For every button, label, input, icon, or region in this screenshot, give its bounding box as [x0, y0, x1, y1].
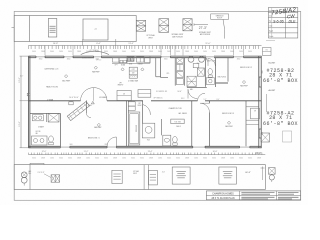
wardrobe — [128, 112, 140, 145]
svg-text:3050: 3050 — [104, 51, 108, 53]
mbath shower — [48, 113, 59, 122]
svg-text:BEDROOM #2: BEDROOM #2 — [240, 67, 252, 69]
svg-text:OPT: OPT — [138, 103, 141, 105]
wd cluster — [187, 76, 196, 86]
svg-text:14'-0": 14'-0" — [178, 91, 182, 93]
svg-text:3040: 3040 — [59, 158, 63, 160]
note box 3 — [149, 170, 158, 185]
svg-text:SH: SH — [254, 110, 256, 112]
svg-text:13'-6": 13'-6" — [19, 121, 21, 126]
svg-text:3050: 3050 — [140, 51, 144, 53]
svg-text:3050: 3050 — [140, 158, 144, 160]
svg-text:OPT: OPT — [119, 83, 122, 85]
svg-text:3040: 3040 — [167, 158, 171, 160]
cbath toilet — [173, 137, 178, 143]
divider lines — [143, 165, 145, 190]
svg-text:3050: 3050 — [262, 70, 264, 73]
broom closet — [155, 58, 157, 77]
ac pad — [261, 133, 270, 142]
chassis strip — [14, 165, 265, 190]
sheet border — [14, 11, 301, 200]
strip end mark — [262, 167, 264, 181]
cbath wall stub — [160, 119, 162, 135]
svg-text:CATHEDRAL CLG: CATHEDRAL CLG — [44, 67, 59, 70]
svg-text:AIR PLENUM: AIR PLENUM — [172, 35, 183, 38]
svg-text:3050: 3050 — [32, 158, 36, 160]
right wall windows — [259, 77, 261, 87]
marriage double door arcs — [81, 88, 94, 101]
svg-text:CHAMPION TUB: CHAMPION TUB — [169, 107, 183, 110]
svg-text:By: By — [269, 21, 271, 23]
svg-text:6'-4": 6'-4" — [96, 43, 101, 45]
svg-text:11'-0": 11'-0" — [205, 43, 210, 45]
svg-text:BEDROOM #1: BEDROOM #1 — [88, 137, 100, 139]
range — [137, 57, 144, 62]
svg-text:1030: 1030 — [194, 158, 198, 160]
corner vent box — [263, 48, 272, 56]
svg-text:3050: 3050 — [39, 58, 43, 60]
bottom dim line — [29, 154, 266, 156]
rear door + arc — [107, 146, 116, 148]
bed2 wall — [215, 58, 217, 87]
svg-text:SHELF & ROD: SHELF & ROD — [217, 77, 226, 79]
svg-text:66'-8": 66'-8" — [255, 152, 261, 155]
svg-text:FAMILY ROOM: FAMILY ROOM — [46, 86, 58, 89]
kitchen island — [129, 67, 137, 78]
bath2 right wall — [204, 58, 206, 87]
kitchen sink — [127, 57, 134, 62]
faint stamp box — [283, 131, 292, 142]
top dimension line — [29, 45, 262, 47]
svg-text:3050: 3050 — [69, 144, 72, 146]
svg-text:9-6-06: 9-6-06 — [273, 20, 283, 24]
svg-text:3050: 3050 — [248, 51, 252, 53]
svg-text:DLE: DLE — [289, 20, 297, 24]
roof label box A — [48, 19, 57, 38]
garden tub — [142, 123, 155, 138]
water heater symbol — [21, 172, 27, 178]
svg-text:3050: 3050 — [176, 158, 180, 160]
bed2 closet — [227, 58, 229, 82]
svg-text:AIR PLENUM: AIR PLENUM — [200, 33, 211, 36]
marriage line — [29, 100, 81, 102]
kitchen counter — [112, 62, 150, 64]
svg-text:4'-0": 4'-0" — [20, 75, 24, 77]
svg-text:OPT: OPT — [115, 64, 118, 66]
note box 2 — [112, 170, 122, 183]
svg-text:OPT 2·0: OPT 2·0 — [96, 59, 101, 61]
cbath vanity — [163, 135, 171, 146]
svg-text:2868: 2868 — [104, 144, 107, 146]
bottom windows — [60, 146, 69, 148]
left exterior wall — [28, 56, 30, 148]
linen — [171, 119, 184, 124]
svg-text:3050: 3050 — [68, 158, 72, 160]
dining label — [94, 66, 97, 69]
svg-text:3040: 3040 — [194, 51, 198, 53]
svg-text:2030: 2030 — [167, 51, 171, 53]
svg-text:3040: 3040 — [230, 51, 234, 53]
title block — [206, 191, 300, 200]
svg-text:A-UNIT: A-UNIT — [269, 89, 276, 92]
svg-text:2868: 2868 — [149, 51, 153, 53]
center bath walls — [142, 101, 144, 123]
svg-text:B-UNIT: B-UNIT — [269, 62, 276, 64]
top exterior wall — [29, 55, 37, 57]
hall door arc — [188, 89, 197, 98]
svg-text:2868: 2868 — [41, 51, 45, 53]
crossmember box 1 — [51, 175, 60, 182]
svg-text:66'-8" BOX: 66'-8" BOX — [263, 78, 298, 84]
left dim line — [20, 56, 22, 148]
svg-text:VENT: VENT — [148, 37, 153, 39]
wardrobe top shelves — [128, 102, 135, 106]
wardrobe wall — [126, 101, 128, 147]
pantry shelf stack — [176, 58, 183, 64]
svg-text:5 X 4 SPCL 1/C: 5 X 4 SPCL 1/C — [156, 91, 168, 93]
roof box B — [83, 19, 108, 40]
bath door arc — [143, 105, 151, 115]
svg-text:2030: 2030 — [131, 51, 135, 53]
svg-text:28 X 71 FLOOR PLAN: 28 X 71 FLOOR PLAN — [211, 197, 234, 200]
svg-text:3050: 3050 — [176, 51, 180, 53]
svg-text:ROOF: ROOF — [217, 18, 223, 20]
svg-text:11'-2": 11'-2" — [84, 151, 89, 153]
svg-text:4'-6": 4'-6" — [162, 172, 166, 174]
utility divider wall — [184, 58, 186, 86]
svg-text:12'-6": 12'-6" — [42, 151, 47, 153]
svg-text:2868: 2868 — [221, 158, 225, 160]
svg-text:3050: 3050 — [68, 51, 72, 53]
crossed vent boxes — [136, 21, 145, 32]
dim 27-3 — [194, 24, 208, 26]
svg-text:DV: DV — [266, 50, 268, 52]
svg-text:OPT W/B 1/C: OPT W/B 1/C — [154, 98, 164, 100]
corner cab — [145, 57, 150, 62]
snack bar boxes on marriage line — [117, 91, 131, 101]
water heater circles — [188, 56, 194, 62]
svg-text:66'-8" BOX: 66'-8" BOX — [263, 121, 298, 127]
svg-text:DESK: DESK — [138, 105, 142, 107]
svg-text:CHAMPION HOMES: CHAMPION HOMES — [212, 193, 234, 196]
svg-text:3050: 3050 — [237, 58, 241, 60]
svg-text:1030: 1030 — [122, 158, 126, 160]
svg-text:SHELF: SHELF — [176, 126, 181, 128]
right leader line — [266, 94, 268, 112]
svg-text:3050: 3050 — [212, 51, 216, 53]
svg-text:2868: 2868 — [41, 158, 45, 160]
bottom exterior wall — [29, 145, 61, 147]
rear exterior door opening — [206, 56, 214, 58]
svg-text:2868: 2868 — [113, 51, 117, 53]
svg-text:13'-6": 13'-6" — [19, 77, 21, 82]
svg-text:3040: 3040 — [239, 158, 243, 160]
furnace box — [197, 68, 204, 76]
svg-text:8'-0": 8'-0" — [217, 99, 220, 101]
svg-text:5'-2": 5'-2" — [204, 99, 207, 101]
wic door arc — [85, 100, 87, 113]
svg-text:BEDROOM #3: BEDROOM #3 — [222, 113, 234, 115]
mbath vanity — [32, 136, 48, 145]
svg-text:1030: 1030 — [230, 158, 234, 160]
svg-text:OPT: OPT — [132, 69, 135, 71]
shingle note box — [211, 14, 229, 19]
svg-text:1030: 1030 — [158, 158, 162, 160]
top windows — [36, 56, 45, 58]
right exterior wall — [258, 56, 260, 148]
svg-text:2030: 2030 — [59, 51, 63, 53]
svg-text:2868: 2868 — [77, 51, 81, 53]
svg-text:3040: 3040 — [131, 158, 135, 160]
svg-text:2 X 1.5": 2 X 1.5" — [37, 172, 44, 174]
bed2 entry door — [206, 58, 208, 60]
spec box 1 — [172, 167, 190, 184]
mbath lav counter — [32, 115, 43, 121]
svg-text:3040: 3040 — [50, 51, 54, 53]
svg-text:13'-4": 13'-4" — [128, 43, 134, 45]
svg-text:48: 48 — [123, 94, 125, 96]
svg-text:2868: 2868 — [77, 158, 81, 160]
furnace symbol — [269, 168, 276, 175]
svg-text:Scale: Scale — [269, 36, 273, 38]
svg-text:Ckd: Ckd — [269, 26, 272, 28]
svg-text:3040: 3040 — [203, 158, 207, 160]
svg-text:3050: 3050 — [164, 58, 168, 60]
svg-text:SINK: SINK — [129, 64, 132, 66]
ml triangle — [91, 101, 94, 104]
svg-text:3040: 3040 — [122, 51, 126, 53]
svg-text:60 TUB: 60 TUB — [36, 131, 41, 133]
svg-text:DROP: DROP — [133, 173, 137, 175]
bed3 closet — [245, 101, 247, 147]
svg-text:2868: 2868 — [221, 51, 225, 53]
svg-text:16'-8": 16'-8" — [53, 43, 59, 45]
porch arc — [81, 51, 109, 54]
master bath walls — [30, 112, 61, 114]
svg-text:TOIL TISS: TOIL TISS — [174, 122, 181, 124]
svg-text:3050: 3050 — [67, 58, 71, 60]
svg-text:2868: 2868 — [185, 51, 189, 53]
svg-text:W.I.C.: W.I.C. — [181, 98, 185, 100]
svg-text:14'-0" X 4'-0": 14'-0" X 4'-0" — [69, 97, 79, 99]
svg-text:TUB: TUB — [147, 140, 150, 142]
svg-text:27'-3": 27'-3" — [199, 26, 207, 30]
svg-text:2868: 2868 — [185, 158, 189, 160]
ml boxes — [69, 102, 73, 105]
bath2 fixtures — [208, 69, 212, 75]
svg-text:3050: 3050 — [248, 158, 252, 160]
svg-text:3040: 3040 — [158, 51, 162, 53]
svg-text:42 HB: 42 HB — [88, 105, 92, 107]
revision table — [268, 8, 297, 39]
bed3 wall + door — [209, 101, 211, 103]
roof plan strip — [14, 16, 136, 42]
svg-text:2030: 2030 — [239, 51, 243, 53]
hall wall — [187, 86, 207, 88]
svg-text:2030: 2030 — [203, 51, 207, 53]
svg-text:UTIL: UTIL — [166, 73, 169, 75]
svg-text:3050: 3050 — [104, 158, 108, 160]
svg-text:DRESSER: DRESSER — [136, 124, 138, 132]
svg-text:2868: 2868 — [149, 158, 153, 160]
svg-text:3050: 3050 — [212, 158, 216, 160]
svg-text:2868: 2868 — [257, 158, 261, 160]
svg-text:W H: W H — [197, 63, 200, 65]
master bed labels — [97, 123, 100, 126]
svg-text:3050: 3050 — [32, 51, 36, 53]
svg-text:13'-4": 13'-4" — [148, 151, 153, 153]
6-4 dim + leaders — [82, 39, 84, 46]
svg-text:10'-8": 10'-8" — [213, 151, 218, 153]
svg-text:2868: 2868 — [113, 158, 117, 160]
utility left wall — [160, 58, 162, 78]
mbath toilet — [49, 136, 54, 142]
svg-text:1030: 1030 — [50, 158, 54, 160]
spec box 2 — [219, 167, 237, 184]
svg-text:3040: 3040 — [95, 158, 99, 160]
svg-text:66'-8": 66'-8" — [245, 172, 251, 174]
angled WIC — [67, 101, 89, 120]
svg-text:1030: 1030 — [86, 158, 90, 160]
